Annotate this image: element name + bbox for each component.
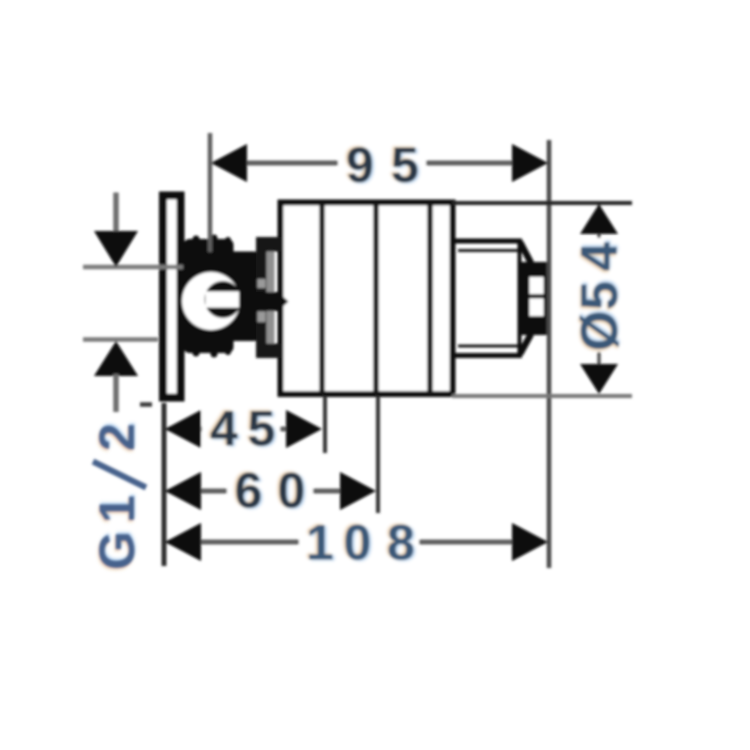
G half lower arrow line — [113, 374, 119, 412]
extension line for dim 60 — [376, 396, 380, 513]
cartridge housing rectangle — [281, 203, 453, 395]
G half slash — [93, 462, 146, 488]
dim 60 line — [168, 489, 370, 494]
bonnet chamfer top — [520, 242, 531, 263]
extension line left of dim 95 (body centerline) — [208, 133, 213, 252]
dia 54 bottom extension line — [452, 394, 632, 398]
spline hole upper — [530, 277, 544, 294]
spindle spline tip block — [521, 262, 548, 335]
G half upper arrow (pointing down) — [94, 231, 138, 267]
dia 54 bottom arrow — [580, 364, 618, 394]
extension line for dim 45 — [323, 396, 327, 453]
G half label leader dash — [140, 402, 152, 407]
svg-text:108: 108 — [306, 515, 415, 571]
dim 95 label background — [338, 140, 426, 186]
dia 54 dimension line — [597, 206, 601, 392]
bonnet chamfer bottom — [520, 334, 531, 354]
dim 60 left arrow — [165, 472, 201, 510]
dim 95 line — [214, 161, 540, 166]
connector gray insert upper — [258, 279, 266, 288]
dim 108 label background — [299, 519, 419, 565]
valve bore (white circle) — [182, 272, 240, 330]
spline hole lower — [530, 299, 544, 317]
dim 60 label background — [227, 468, 313, 514]
dia 54 label background — [576, 238, 620, 352]
dim 45 label background — [202, 406, 280, 452]
dim 108 right arrow — [512, 523, 548, 561]
dim 60 right arrow — [340, 472, 376, 510]
svg-text:Ø 54: Ø 54 — [571, 242, 629, 351]
bonnet neck inner top line — [458, 249, 518, 252]
cartridge segment line 1 — [319, 203, 325, 394]
G half lower arrow (pointing up) — [94, 341, 138, 376]
G half pipe dia upper extension line — [83, 265, 183, 270]
crescent slot — [206, 292, 240, 308]
valve body (black housing) — [178, 235, 259, 358]
dim 45 left arrow — [165, 410, 201, 448]
dia 54 top arrow — [580, 204, 618, 234]
dim 108 left arrow — [165, 523, 201, 561]
dim 108 line — [168, 540, 545, 545]
spindle crescent inside bore — [205, 281, 242, 318]
dim 95 left arrow — [211, 144, 247, 182]
left extension line for dims 45 60 108 (wall face) — [162, 403, 167, 566]
gray junction band — [267, 251, 275, 346]
connector bottom cap — [256, 344, 282, 359]
bonnet neck right edge — [518, 243, 522, 353]
bonnet neck top edge — [452, 239, 522, 244]
cartridge segment line 3 — [427, 203, 433, 394]
bonnet neck bottom edge — [452, 353, 522, 358]
connector column — [256, 237, 267, 358]
svg-text:G 12: G 12 — [89, 423, 145, 570]
extension line right (spindle end, dims 95 and 108) — [547, 140, 552, 568]
G half pipe dia lower extension line — [83, 337, 158, 342]
dim 95 right arrow — [512, 144, 548, 182]
bonnet neck inner bottom line — [458, 345, 518, 348]
connector gray insert lower — [258, 312, 266, 323]
connector top cap — [256, 237, 282, 252]
wall flange plate — [163, 196, 181, 398]
spindle shaft with pointed tip — [239, 292, 289, 311]
G half upper arrow line — [113, 193, 119, 235]
cartridge segment line 2 — [373, 203, 379, 394]
dia 54 top extension line — [452, 201, 632, 205]
dim 45 line — [168, 427, 318, 432]
dim 45 right arrow — [286, 410, 322, 448]
